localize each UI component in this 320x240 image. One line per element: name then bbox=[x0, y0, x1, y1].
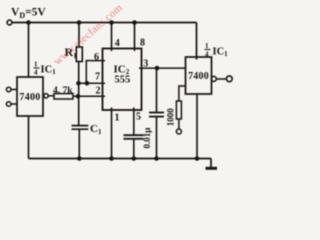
label 1/4 IC1 (right) bbox=[205, 42, 229, 59]
power terminal VD bbox=[7, 20, 12, 25]
capacitor C3 on pin3 line bbox=[149, 68, 164, 158]
junction rail-pin4 bbox=[109, 20, 114, 25]
input terminal (below R3) bbox=[176, 129, 181, 134]
junction rail-C3 bbox=[154, 156, 159, 161]
gate U1A 7400 bbox=[17, 77, 43, 116]
op 555 U2 box bbox=[103, 49, 142, 111]
svg-text:0.01μ: 0.01μ bbox=[142, 128, 152, 149]
label 1/4 IC1 (left) bbox=[34, 61, 57, 77]
resistor R2 4.7k bbox=[54, 94, 73, 99]
wire top rail bbox=[12, 22, 197, 24]
wire rail to R1 bbox=[78, 23, 80, 48]
wire 555 pin6 stub bbox=[86, 61, 105, 84]
wire R2 to 555 pin2 bbox=[73, 95, 105, 97]
capacitor C2 0.01u plates bbox=[124, 135, 144, 158]
wire U1B bottom to ground rail bbox=[196, 94, 198, 159]
junction rail-pin1 bbox=[109, 156, 114, 161]
junction rail-U1A bbox=[26, 20, 31, 25]
wire U1B out bbox=[216, 78, 226, 80]
junction pin6-pin7 bbox=[85, 81, 90, 86]
junction rail-U1B bbox=[195, 156, 200, 161]
input terminal U1A-1 bbox=[6, 87, 17, 92]
wire U1A out to R2 bbox=[48, 95, 54, 97]
junction node A bbox=[76, 94, 81, 99]
wire rail right drop to U1B bbox=[196, 23, 198, 60]
wire ground rail bbox=[29, 158, 212, 160]
output terminal bbox=[226, 76, 232, 82]
wire 555 pin5 down bbox=[133, 108, 135, 136]
junction R1-pin7 bbox=[76, 81, 81, 86]
svg-text:1: 1 bbox=[34, 61, 38, 69]
watermark www.elecfans.com bbox=[52, 2, 126, 68]
capacitor C1 plates bbox=[72, 126, 89, 159]
svg-text:1000: 1000 bbox=[166, 108, 176, 127]
wire rail to U1A top bbox=[28, 23, 30, 78]
wire 555 pin7 stub bbox=[79, 82, 106, 84]
wire U1A bottom to ground rail bbox=[28, 116, 30, 159]
junction rail-R1 bbox=[77, 20, 82, 25]
resistor R1 bbox=[76, 47, 82, 62]
svg-text:4: 4 bbox=[115, 38, 120, 49]
svg-text:VD=5V: VD=5V bbox=[11, 7, 46, 21]
svg-text:7400: 7400 bbox=[19, 92, 40, 103]
output bubble U1B bbox=[211, 76, 216, 81]
wire 555 pin3 to U1B input bbox=[139, 67, 186, 69]
svg-text:6: 6 bbox=[94, 52, 99, 63]
wire R3 to input terminal bbox=[178, 119, 180, 129]
svg-text:1: 1 bbox=[115, 113, 120, 124]
ground symbol bbox=[206, 159, 218, 169]
output bubble U1A bbox=[44, 94, 48, 98]
junction pin3 node bbox=[155, 66, 160, 71]
svg-text:8: 8 bbox=[140, 38, 145, 49]
junction rail-C2 bbox=[132, 156, 137, 161]
wire rail to 555 pin4 bbox=[111, 23, 113, 52]
junction rail-pin8 bbox=[132, 20, 137, 25]
wire R1 to node A bbox=[78, 62, 80, 126]
resistor R3 1000 bbox=[176, 101, 181, 119]
label VD=5V bbox=[11, 7, 46, 21]
gate U1B 7400 bbox=[186, 57, 212, 94]
svg-text:7400: 7400 bbox=[188, 71, 209, 82]
svg-text:2: 2 bbox=[96, 86, 101, 97]
svg-text:555: 555 bbox=[115, 75, 131, 86]
svg-text:4: 4 bbox=[34, 69, 38, 77]
wire 555 pin1 to ground rail bbox=[111, 108, 113, 159]
wire rail to 555 pin8 bbox=[134, 23, 136, 52]
svg-text:5: 5 bbox=[136, 112, 141, 123]
svg-text:4. 7k: 4. 7k bbox=[53, 86, 73, 96]
svg-text:7: 7 bbox=[95, 72, 100, 83]
svg-text:1: 1 bbox=[205, 42, 209, 50]
input terminal U1A-2 bbox=[6, 102, 17, 107]
junction rail-C1 bbox=[77, 156, 82, 161]
wire U1B input2 jog bbox=[179, 86, 186, 101]
